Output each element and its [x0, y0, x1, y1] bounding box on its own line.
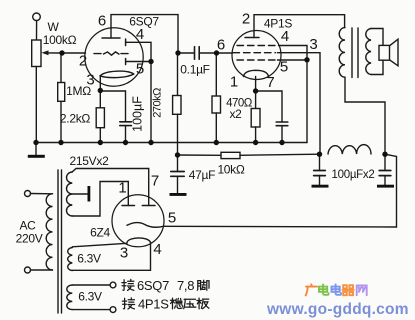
6SQ7 diode plate pin 5	[125, 59, 127, 65]
svg-text:0.1µF: 0.1µF	[180, 63, 209, 77]
input terminal	[33, 13, 41, 21]
resistor 1MΩ	[60, 53, 62, 83]
heater winding 6.3V lower	[67, 285, 73, 310]
wire pin 7 to HV winding top	[72, 169, 148, 206]
wire filament pin 4	[72, 242, 150, 270]
wire grid to 4P1S pin 6	[217, 52, 233, 54]
svg-text:6: 6	[98, 13, 106, 30]
svg-text:2: 2	[242, 11, 250, 28]
wire PT primary bottom	[31, 269, 53, 271]
Chinese note text line 1: connect 6SQ7 pins 7,8	[137, 278, 194, 293]
svg-text:100µF: 100µF	[131, 96, 145, 132]
svg-text:2.2kΩ: 2.2kΩ	[60, 112, 90, 126]
svg-text:6: 6	[217, 37, 225, 54]
svg-text:7: 7	[266, 74, 274, 91]
svg-text:7: 7	[151, 173, 159, 190]
6SQ7 cathode	[100, 71, 134, 78]
resistor 470Ω first	[215, 53, 217, 96]
resistor 470Ω second	[255, 91, 257, 109]
heater winding 6.3V upper	[68, 248, 73, 271]
wire input to potentiometer	[36, 21, 38, 40]
hanzi: line 2 "jie"	[122, 298, 134, 309]
svg-text:6SQ7: 6SQ7	[129, 15, 159, 29]
svg-text:AC: AC	[19, 219, 36, 233]
wire filament pin 3	[72, 243, 127, 247]
svg-text:4: 4	[281, 28, 289, 45]
resistor 2.2kΩ	[99, 91, 101, 108]
6SQ7 diode plate pin 4	[125, 39, 127, 46]
output transformer secondary	[366, 29, 371, 75]
ground for 47µF	[170, 193, 187, 196]
wire 6.3V lower to terminals	[72, 284, 110, 286]
6Z4 plate pin 1	[122, 205, 135, 207]
wire 6SQ7 plate to node B	[111, 15, 178, 53]
wire secondary to speaker	[371, 29, 383, 46]
svg-text:5: 5	[280, 59, 288, 76]
svg-text:W: W	[47, 20, 59, 34]
ground bus	[36, 142, 307, 144]
svg-text:7,8: 7,8	[177, 278, 194, 293]
hanzi: line 1 "jie"	[122, 279, 134, 290]
svg-text:100µFx2: 100µFx2	[332, 169, 375, 181]
wire OT primary bottom to B+ node	[345, 77, 385, 154]
hanzi: line 2 "wen ya ban"	[170, 298, 182, 309]
wire pins 4,5 to ground bus	[150, 62, 152, 143]
wire 4P1S plate to output transformer	[254, 15, 345, 38]
svg-text:3: 3	[120, 245, 128, 262]
svg-text:6Z4: 6Z4	[90, 226, 110, 240]
4P1S cathode	[244, 70, 269, 76]
value labels	[16, 15, 375, 304]
node B junction wires	[178, 52, 194, 54]
svg-text:10kΩ: 10kΩ	[217, 163, 244, 177]
pin number labels	[79, 11, 318, 262]
power transformer core	[57, 170, 59, 313]
svg-text:1: 1	[230, 74, 238, 91]
svg-text:5: 5	[168, 210, 176, 227]
capacitor 100µF right	[384, 154, 386, 170]
svg-text:6.3V: 6.3V	[77, 252, 101, 266]
tube 6Z4 envelope	[112, 195, 164, 247]
capacitor 0.1µF	[194, 47, 196, 60]
svg-text:6.3V: 6.3V	[78, 290, 102, 304]
wire 6SQ7 cathode to node C	[99, 76, 101, 91]
4P1S anode plate pin 2	[245, 37, 259, 39]
svg-text:4: 4	[153, 241, 161, 258]
svg-text:4P1S: 4P1S	[138, 297, 169, 312]
output transformer core	[351, 28, 353, 78]
watermark: colored site name	[306, 284, 317, 295]
wire to PT primary	[31, 193, 53, 195]
svg-text:215Vx2: 215Vx2	[70, 154, 110, 168]
ground symbol	[35, 143, 37, 155]
output transformer primary	[339, 28, 345, 78]
tube 4P1S envelope	[232, 31, 281, 80]
svg-text:220V: 220V	[16, 232, 43, 246]
hanzi: line 1 "jiao"	[197, 280, 209, 290]
6SQ7 grid	[94, 53, 101, 55]
svg-text:5: 5	[136, 61, 144, 78]
wire pin 4 to pin 5	[126, 42, 151, 61]
svg-text:2: 2	[79, 53, 87, 70]
mains terminal top	[25, 191, 31, 197]
6Z4 plate pin 7	[142, 205, 155, 207]
svg-text:3: 3	[86, 72, 94, 89]
wire 4P1S cathode to node D	[255, 77, 257, 92]
capacitor 100µF left	[319, 154, 321, 170]
wire wiper to node A	[47, 52, 62, 54]
potentiometer W 100kΩ	[32, 40, 41, 67]
6Z4 cathode pin 5	[127, 223, 163, 228]
cathode bypass capacitor	[256, 91, 282, 122]
resistor 10kΩ	[221, 152, 240, 158]
power transformer primary	[46, 194, 52, 270]
svg-text:1: 1	[118, 180, 126, 197]
HV center tap to chassis	[72, 193, 87, 195]
wire pins 4,5 to ground bus corner	[306, 60, 308, 143]
tube 6SQ7 envelope	[85, 28, 143, 86]
resistor 270kΩ	[177, 53, 179, 96]
wire 6Z4 cathode to B+ raw node	[163, 154, 396, 227]
svg-text:x2: x2	[229, 107, 242, 121]
svg-text:6SQ7: 6SQ7	[137, 278, 169, 293]
svg-text:47µF: 47µF	[189, 168, 215, 182]
capacitor 100µF	[100, 90, 125, 92]
wire pin 5 junction	[126, 61, 151, 63]
6Z4 filament	[127, 238, 151, 243]
svg-text:3: 3	[309, 36, 317, 53]
wire node A to 6SQ7 pin 2	[62, 52, 86, 54]
svg-text:4: 4	[136, 26, 144, 43]
4P1S grid row 2 / wire pin 3 to B+	[233, 52, 276, 54]
B+ rail to 10kΩ	[178, 154, 222, 156]
svg-text:www.go-gddq.com: www.go-gddq.com	[266, 301, 409, 318]
HV winding 215Vx2	[67, 172, 73, 216]
6SQ7 anode plate pin 6	[102, 37, 120, 39]
4P1S grid row 3 / wire pin 5	[237, 59, 277, 61]
4P1S grid row 1 / wire pin 4	[237, 45, 278, 47]
svg-text:270kΩ: 270kΩ	[152, 88, 164, 118]
wire pot bottom to ground bus	[35, 67, 37, 143]
pot wiper arrow	[42, 50, 49, 55]
capacitor 47µF	[177, 155, 179, 172]
wire pin 1 to HV winding bottom	[72, 182, 128, 217]
mains terminal bottom	[25, 267, 31, 273]
filter choke	[328, 145, 371, 154]
speaker	[379, 45, 390, 60]
svg-text:100kΩ: 100kΩ	[43, 33, 77, 47]
